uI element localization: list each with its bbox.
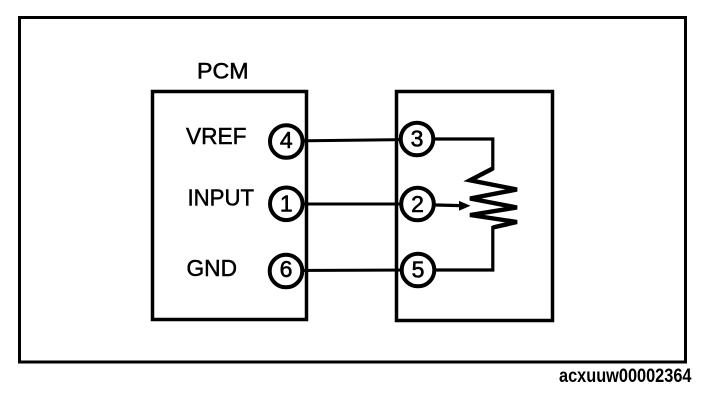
pin 5 (402, 254, 435, 287)
svg-text:VREF: VREF (186, 123, 247, 149)
svg-text:1: 1 (280, 190, 293, 216)
wire pin 5 to resistor bottom (418, 226, 493, 270)
svg-text:2: 2 (411, 191, 424, 217)
svg-text:3: 3 (411, 126, 424, 152)
wire pin 2 to wiper arrow (418, 205, 462, 206)
wire pin 3 to resistor top (417, 139, 493, 170)
resistor (potentiometer element) (470, 169, 517, 228)
svg-text:5: 5 (412, 257, 425, 283)
wire VREF: pin 4 to pin 3 (286, 140, 417, 142)
svg-text:PCM: PCM (197, 58, 249, 83)
wire GND: pin 6 to pin 5 (286, 269, 418, 273)
pin 2 (401, 188, 434, 221)
wiper arrow (459, 201, 471, 211)
pin 4 (VREF) (270, 125, 303, 158)
svg-text:6: 6 (280, 256, 293, 282)
svg-text:GND: GND (187, 255, 238, 281)
svg-text:acxuuw00002364: acxuuw00002364 (559, 365, 692, 387)
PCM box (153, 92, 307, 320)
svg-text:4: 4 (280, 127, 293, 153)
pin 6 (GND) (270, 255, 303, 288)
pin 3 (401, 123, 434, 156)
sensor box (397, 92, 553, 321)
wire INPUT: pin 1 to pin 2 (286, 203, 418, 206)
svg-text:INPUT: INPUT (188, 184, 255, 210)
pin 1 (INPUT) (270, 188, 303, 221)
